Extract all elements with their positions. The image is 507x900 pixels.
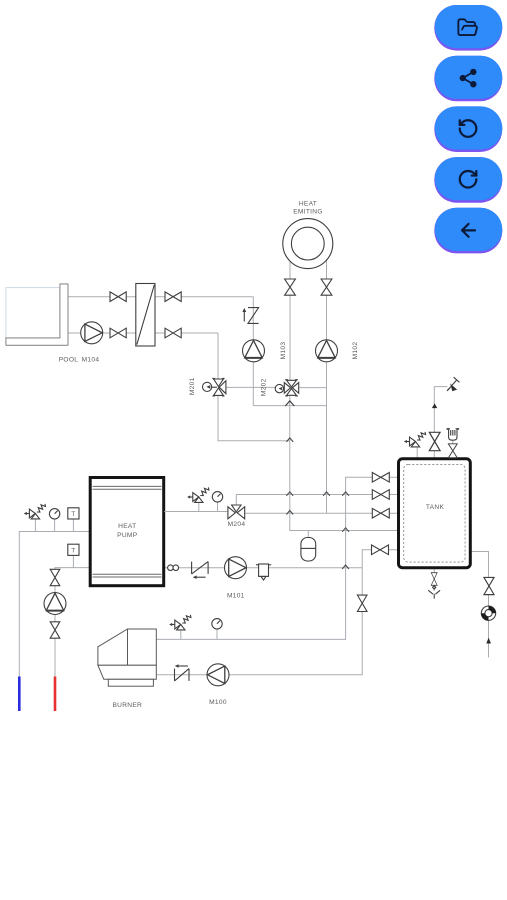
- heat pump inner lines: [93, 486, 162, 577]
- wire M201 riser from HX: [217, 333, 219, 379]
- check arrow tank top: [432, 403, 437, 408]
- wire heat pump left upper: [19, 532, 90, 677]
- wire M103 riser: [252, 297, 254, 406]
- wire pool return bottom: [68, 332, 218, 334]
- node junction M201 line A: [286, 438, 293, 442]
- svg-text:T: T: [71, 511, 75, 518]
- valve tank drain: [431, 573, 437, 586]
- check arrow cold inlet: [486, 638, 491, 644]
- wire expansion vessel stem: [307, 531, 309, 538]
- svg-text:M101: M101: [227, 592, 245, 599]
- node burner riser row2: [342, 492, 349, 496]
- burner body: [98, 629, 156, 686]
- valve pool bottom left: [110, 328, 126, 338]
- heat emitter circle: [283, 219, 333, 269]
- pool basin water: [6, 288, 60, 338]
- valve air separator: [448, 444, 457, 458]
- water meter: [481, 606, 496, 621]
- node burner riser M101: [342, 565, 349, 569]
- button redo: [434, 157, 502, 203]
- wire M202 right arm to riser: [299, 387, 326, 389]
- valve tank row1: [372, 473, 389, 483]
- valve pool bottom right: [165, 328, 181, 338]
- faucet: [447, 377, 459, 391]
- wire tank vessel stub: [452, 440, 454, 459]
- wire M201 to M202: [226, 386, 284, 388]
- wire M201 bottom run: [218, 396, 290, 441]
- expansion vessel: [301, 538, 316, 562]
- svg-text:M103: M103: [280, 342, 287, 360]
- svg-text:POOL: POOL: [59, 357, 79, 364]
- BUTTONS-LAYER: [434, 5, 502, 253]
- svg-text:M201: M201: [189, 377, 196, 395]
- pump M104: [81, 322, 103, 344]
- gauge burner: [212, 619, 222, 640]
- safety valve heat pump left: [24, 504, 46, 532]
- valve tank row5: [372, 545, 389, 555]
- check valve M101 line: [192, 562, 209, 579]
- svg-text:PUMP: PUMP: [117, 532, 138, 539]
- air separator vessel: [446, 429, 459, 441]
- check valve M100 line: [175, 664, 190, 681]
- valve heat emitter left: [285, 279, 296, 295]
- svg-text:HEAT: HEAT: [299, 200, 317, 207]
- svg-text:M102: M102: [352, 342, 359, 360]
- pump M102: [316, 340, 338, 362]
- valve M204 three way: [228, 505, 245, 519]
- valve M201 three way: [203, 378, 226, 396]
- tank inner dashed: [404, 464, 465, 562]
- air vent Z: [242, 308, 258, 324]
- sensor T2: [68, 544, 79, 567]
- safety valve burner: [169, 615, 191, 640]
- valve pool top left: [110, 292, 126, 302]
- gauge heat pump right: [212, 492, 222, 512]
- svg-text:M202: M202: [261, 378, 268, 396]
- svg-text:T: T: [71, 548, 75, 555]
- wire cold water inlet right: [470, 552, 488, 658]
- node line A row2: [286, 492, 293, 496]
- heat pump box: [90, 478, 164, 586]
- pump M101: [225, 557, 247, 579]
- pump M100: [207, 664, 229, 686]
- valve left riser lower: [50, 622, 60, 638]
- drain diamond: [433, 586, 436, 590]
- valve lower left riser: [357, 595, 367, 611]
- wire heat emitter right drop / M102 riser: [326, 260, 328, 513]
- heat exchanger: [136, 284, 155, 347]
- safety valve heat pump right: [187, 487, 209, 511]
- cold water mark blue: [18, 677, 21, 712]
- dirt separator: [256, 564, 271, 580]
- SYMBOLS-LAYER: [6, 200, 496, 711]
- node burner riser row4: [342, 528, 349, 532]
- svg-text:TANK: TANK: [426, 504, 445, 511]
- valve tank row3: [372, 508, 389, 518]
- wire pool supply top: [68, 296, 253, 298]
- button share: [434, 56, 502, 102]
- wire row5 tank lower left: [156, 550, 398, 675]
- button undo: [434, 106, 502, 152]
- pump left riser: [44, 593, 66, 615]
- valve left riser upper: [50, 569, 60, 585]
- pool wall: [6, 284, 68, 345]
- node M102 riser row2: [323, 492, 330, 496]
- PIPES-LAYER: [19, 260, 488, 677]
- wire heat pump right to M204: [164, 511, 228, 513]
- gauge heat pump left: [49, 509, 59, 532]
- valve M202 four way: [275, 380, 299, 396]
- wire tank safety stub: [416, 447, 418, 459]
- wire heat emitter left drop: [289, 261, 291, 380]
- wire tank drain: [433, 568, 435, 591]
- wire cross manifold y405: [253, 405, 326, 407]
- hot water mark red: [54, 677, 57, 712]
- wire row1 and burner riser: [156, 477, 398, 639]
- wire M101 run: [164, 567, 362, 569]
- pump M103: [243, 340, 265, 362]
- valve tank top stem: [429, 432, 440, 450]
- valve tank row2: [372, 490, 389, 500]
- union coupling: [168, 565, 179, 571]
- valve heat emitter right: [321, 279, 332, 295]
- wire heat pump left lower: [55, 568, 90, 677]
- button open file: [434, 5, 502, 51]
- wire row2 from M204 top: [236, 495, 398, 507]
- tank box: [399, 459, 471, 568]
- svg-text:M204: M204: [228, 521, 246, 528]
- drain Y: [428, 590, 440, 598]
- safety valve tank top: [404, 432, 426, 447]
- svg-text:M100: M100: [209, 699, 227, 706]
- button back: [434, 208, 502, 254]
- svg-text:EMITING: EMITING: [293, 208, 323, 215]
- wire line A M202 down to tank row4: [290, 396, 399, 531]
- wire row3 from M204 right: [245, 512, 398, 514]
- sensor T1: [68, 508, 79, 532]
- valve cold inlet: [484, 577, 494, 594]
- check arrow under M202: [285, 401, 294, 406]
- wire tank top stem: [434, 387, 447, 459]
- node line A row3: [286, 511, 293, 515]
- svg-text:BURNER: BURNER: [112, 702, 142, 709]
- svg-text:HEAT: HEAT: [118, 523, 136, 530]
- valve pool top right: [165, 292, 181, 302]
- svg-text:M104: M104: [82, 357, 100, 364]
